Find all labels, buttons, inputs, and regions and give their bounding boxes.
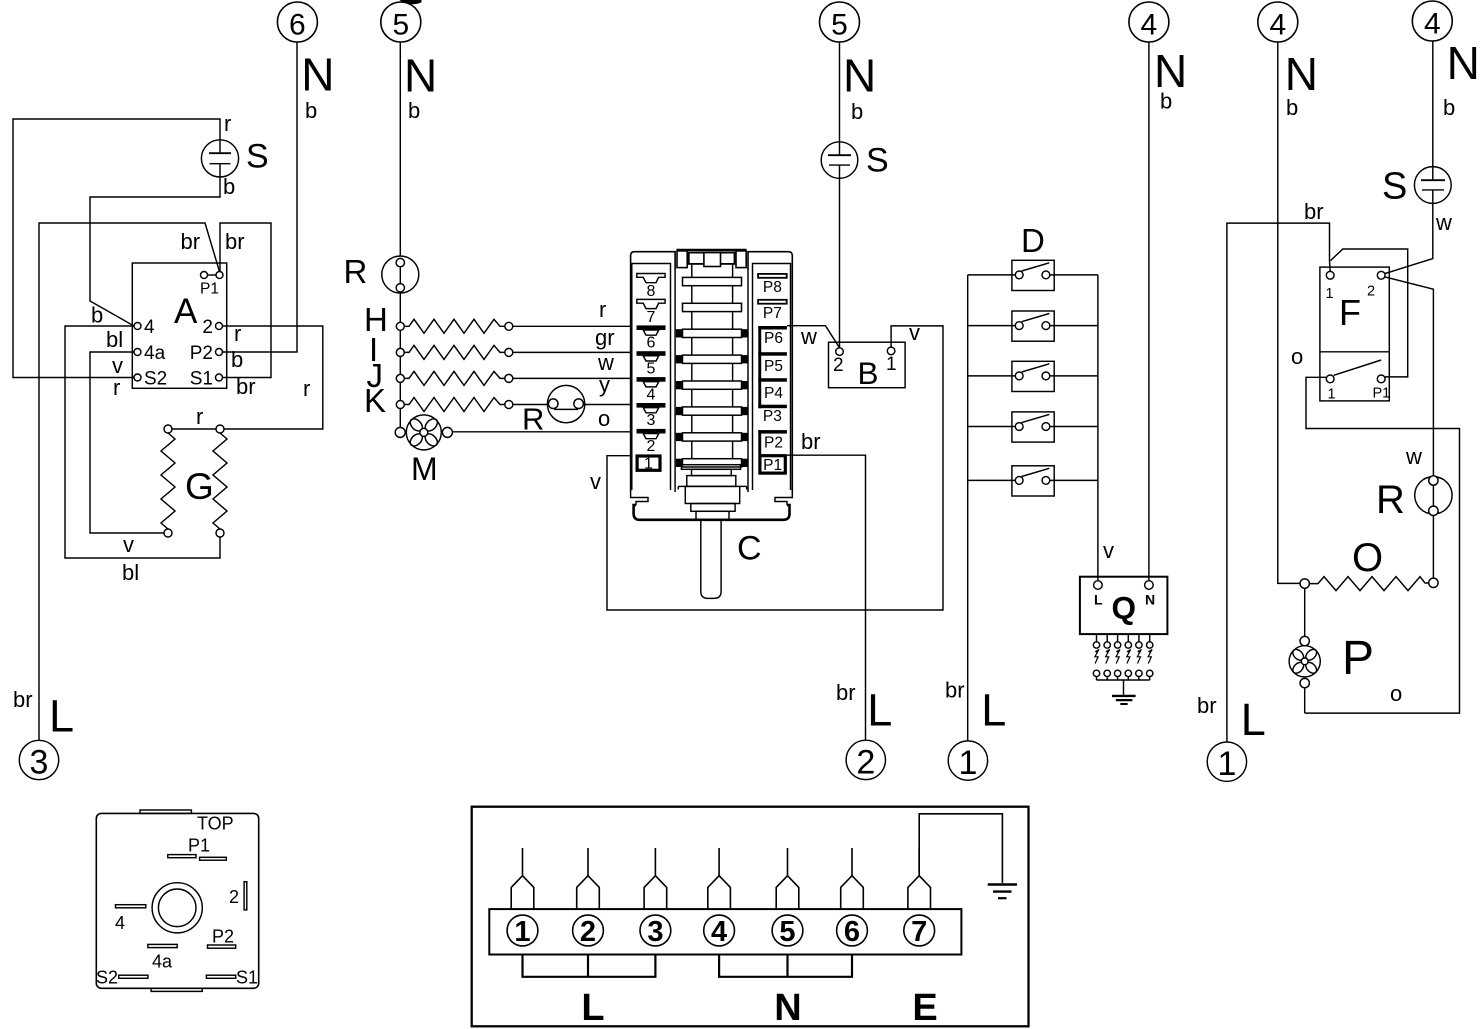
svg-text:r: r — [599, 297, 606, 322]
svg-text:L: L — [1241, 694, 1266, 745]
svg-text:N: N — [404, 50, 437, 102]
svg-text:P1: P1 — [1373, 385, 1391, 401]
svg-text:P3: P3 — [763, 408, 782, 425]
svg-text:2: 2 — [202, 317, 213, 338]
svg-text:v: v — [590, 469, 601, 494]
svg-text:r: r — [196, 404, 203, 429]
svg-text:b: b — [231, 347, 243, 372]
svg-text:F: F — [1339, 292, 1361, 333]
svg-text:o: o — [1291, 344, 1303, 369]
svg-text:br: br — [836, 680, 856, 705]
svg-text:M: M — [411, 451, 438, 487]
svg-text:S: S — [866, 142, 889, 180]
svg-text:2: 2 — [856, 743, 875, 781]
svg-text:2: 2 — [1367, 284, 1375, 300]
svg-text:r: r — [113, 375, 120, 400]
svg-text:N: N — [774, 987, 801, 1029]
svg-text:b: b — [223, 174, 235, 199]
svg-text:S: S — [246, 137, 269, 175]
svg-text:S2: S2 — [144, 369, 167, 390]
svg-text:b: b — [851, 99, 863, 124]
svg-text:bl: bl — [106, 327, 123, 352]
svg-text:5: 5 — [647, 360, 656, 377]
svg-text:P8: P8 — [763, 279, 782, 296]
svg-text:br: br — [945, 678, 965, 703]
svg-text:5: 5 — [831, 8, 848, 41]
svg-text:v: v — [123, 532, 134, 557]
svg-text:B: B — [858, 355, 879, 391]
svg-text:v: v — [909, 320, 920, 345]
svg-text:5: 5 — [779, 916, 795, 948]
svg-text:b: b — [91, 303, 103, 328]
svg-text:S2: S2 — [96, 968, 118, 988]
svg-text:1: 1 — [1328, 386, 1336, 402]
svg-text:P1: P1 — [763, 457, 782, 474]
svg-text:E: E — [912, 987, 937, 1029]
svg-text:L: L — [581, 987, 604, 1029]
svg-text:br: br — [181, 229, 201, 254]
svg-text:L: L — [867, 685, 892, 736]
svg-text:o: o — [598, 406, 610, 431]
svg-text:S1: S1 — [236, 968, 258, 988]
svg-text:K: K — [364, 382, 386, 419]
svg-text:P4: P4 — [764, 385, 783, 402]
svg-text:A: A — [174, 292, 198, 331]
svg-text:P1: P1 — [200, 281, 219, 298]
svg-text:b: b — [1286, 95, 1298, 120]
svg-text:r: r — [224, 111, 231, 136]
svg-text:1: 1 — [886, 354, 897, 375]
svg-text:3: 3 — [647, 412, 656, 429]
svg-text:b: b — [1443, 95, 1455, 120]
svg-text:3: 3 — [30, 743, 49, 781]
svg-text:P6: P6 — [764, 330, 783, 347]
svg-text:b: b — [408, 98, 420, 123]
svg-text:br: br — [1304, 199, 1324, 224]
svg-text:br: br — [13, 687, 33, 712]
svg-text:2: 2 — [229, 887, 239, 907]
svg-text:2: 2 — [833, 355, 844, 376]
svg-text:7: 7 — [911, 916, 927, 948]
svg-text:P2: P2 — [190, 343, 213, 364]
svg-text:r: r — [303, 376, 310, 401]
svg-text:3: 3 — [647, 916, 663, 948]
svg-text:o: o — [1390, 681, 1402, 706]
svg-text:1: 1 — [958, 744, 977, 782]
svg-text:R: R — [1376, 478, 1405, 522]
svg-text:br: br — [225, 229, 245, 254]
svg-text:br: br — [801, 429, 821, 454]
svg-text:8: 8 — [647, 283, 656, 300]
svg-text:C: C — [737, 530, 762, 568]
svg-text:4: 4 — [647, 386, 656, 403]
svg-text:N: N — [1447, 37, 1480, 89]
svg-text:P7: P7 — [763, 305, 782, 322]
svg-text:1: 1 — [514, 916, 530, 948]
svg-text:L: L — [49, 691, 74, 742]
svg-text:gr: gr — [595, 325, 615, 350]
svg-text:4: 4 — [1269, 8, 1286, 41]
svg-text:O: O — [1352, 536, 1383, 580]
svg-text:P2: P2 — [764, 435, 783, 452]
svg-text:P2: P2 — [212, 927, 234, 947]
svg-text:1: 1 — [1326, 286, 1334, 302]
svg-text:6: 6 — [844, 916, 860, 948]
svg-text:bl: bl — [122, 560, 139, 585]
svg-text:4: 4 — [144, 317, 155, 338]
svg-text:2: 2 — [580, 916, 596, 948]
svg-text:b: b — [1160, 89, 1172, 114]
svg-text:br: br — [1197, 693, 1217, 718]
svg-text:1: 1 — [644, 455, 653, 472]
svg-text:4a: 4a — [152, 952, 173, 972]
svg-text:4: 4 — [711, 916, 727, 948]
svg-text:Q: Q — [1112, 590, 1137, 626]
svg-text:4: 4 — [115, 913, 125, 933]
svg-text:P1: P1 — [188, 836, 210, 856]
svg-text:S1: S1 — [190, 369, 213, 390]
svg-text:G: G — [185, 466, 214, 507]
svg-text:6: 6 — [289, 8, 306, 41]
svg-text:7: 7 — [647, 309, 656, 326]
svg-text:N: N — [843, 50, 876, 102]
svg-text:y: y — [599, 372, 610, 397]
svg-text:P: P — [1342, 632, 1374, 685]
svg-text:N: N — [1145, 592, 1155, 608]
svg-text:1: 1 — [1217, 745, 1236, 783]
svg-text:R: R — [344, 253, 368, 290]
svg-text:R: R — [522, 402, 544, 437]
svg-text:4a: 4a — [144, 343, 166, 364]
svg-text:2: 2 — [647, 438, 656, 455]
svg-text:5: 5 — [392, 8, 409, 41]
svg-text:v: v — [1103, 538, 1114, 563]
svg-text:N: N — [1285, 48, 1318, 100]
svg-text:r: r — [234, 321, 241, 346]
svg-text:w: w — [1405, 444, 1422, 469]
svg-text:L: L — [1094, 592, 1103, 608]
svg-text:b: b — [305, 98, 317, 123]
svg-text:TOP: TOP — [197, 814, 234, 834]
svg-text:P5: P5 — [764, 358, 783, 375]
svg-text:4: 4 — [1141, 8, 1158, 41]
svg-text:4: 4 — [1424, 7, 1441, 40]
svg-text:w: w — [1435, 210, 1452, 235]
svg-text:br: br — [236, 374, 256, 399]
svg-text:L: L — [981, 685, 1006, 736]
svg-text:S: S — [1382, 166, 1407, 208]
svg-text:N: N — [301, 49, 334, 101]
svg-text:6: 6 — [647, 335, 656, 352]
svg-text:D: D — [1021, 222, 1045, 259]
svg-text:w: w — [800, 324, 817, 349]
